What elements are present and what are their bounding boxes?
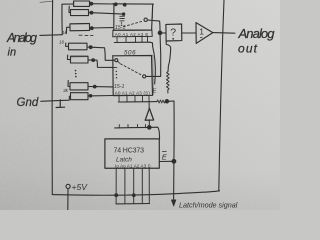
wire U1 address bus bbox=[114, 41, 149, 43]
node summing junction bbox=[158, 31, 162, 35]
latch U3 bottom pins bbox=[116, 168, 149, 204]
resistor R3 bbox=[70, 23, 90, 30]
svg-text:E: E bbox=[153, 89, 157, 95]
mux U2 input contact bbox=[115, 59, 118, 62]
wire input riser bbox=[62, 4, 74, 35]
svg-text:1: 1 bbox=[199, 27, 204, 37]
op-amp buffer A1 bbox=[196, 23, 213, 44]
ground symbol bbox=[59, 100, 61, 107]
wire Analog in bbox=[40, 34, 63, 37]
wire latch E pin bbox=[159, 160, 174, 162]
frame border right bbox=[219, 0, 224, 191]
svg-text:1k: 1k bbox=[62, 30, 68, 35]
latch bus teeth bbox=[119, 124, 145, 127]
node R7 tap bbox=[89, 95, 92, 98]
resistor R2 bbox=[71, 10, 89, 16]
mux U1 wiper dashed bbox=[124, 21, 144, 27]
node E junction bbox=[172, 159, 176, 163]
resistor R7 bbox=[71, 93, 89, 100]
svg-text:74 HC373: 74 HC373 bbox=[114, 148, 145, 155]
wire U2 address bus bbox=[118, 101, 157, 103]
node pin crossing 2 bbox=[132, 194, 135, 197]
node R3 tap bbox=[90, 27, 93, 30]
svg-text:Io Ao A1 A2 A3 S: Io Ao A1 A2 A3 S bbox=[115, 163, 151, 168]
text Analog in bbox=[6, 31, 37, 59]
wire R3 to mux1 bbox=[90, 27, 113, 29]
ellipsis omitted resistors bbox=[79, 34, 93, 36]
op-amp/mux U1 box bbox=[113, 4, 154, 31]
svg-text:in: in bbox=[8, 47, 17, 59]
comparator box ? bbox=[166, 24, 182, 41]
wire junction to ? box bbox=[162, 32, 166, 34]
node R2 tap bbox=[90, 11, 93, 14]
text Analog out bbox=[238, 26, 276, 56]
mux U1 input contacts bbox=[120, 16, 125, 21]
resistor R5 bbox=[71, 56, 89, 63]
mux U1 label strip bbox=[113, 30, 153, 37]
wire R4 to mux2 input bbox=[87, 47, 114, 60]
wire U2 output up to junction bbox=[146, 33, 161, 77]
mux U2 box bbox=[113, 56, 153, 96]
wire R6 left hook bbox=[68, 81, 70, 87]
wire latch top bus bbox=[115, 127, 160, 139]
wire latch/mode line bbox=[173, 101, 176, 200]
wire pin bottom bar bbox=[116, 203, 149, 205]
frame border bottom bbox=[52, 191, 219, 196]
resistor R4 bbox=[69, 43, 88, 50]
svg-text:+5V: +5V bbox=[72, 182, 89, 192]
mux U2 input tick bbox=[113, 66, 117, 68]
svg-text:out: out bbox=[238, 42, 258, 56]
mux U2 pin stubs bbox=[119, 96, 149, 102]
resistor R6 bbox=[70, 83, 88, 90]
node U1 top tap 2 bbox=[123, 3, 126, 6]
wire R1 to mux bbox=[90, 3, 115, 5]
svg-text:506: 506 bbox=[124, 50, 136, 57]
wire +5V down bbox=[67, 189, 69, 210]
wire U1 output bbox=[147, 20, 160, 33]
svg-text:15-1: 15-1 bbox=[115, 25, 125, 31]
node bus arrow junction bbox=[148, 126, 152, 130]
wire R6 to mux2 bbox=[88, 86, 113, 88]
resistor R1 bbox=[74, 1, 90, 6]
svg-text:Analog: Analog bbox=[6, 31, 37, 45]
svg-text:A0 A1 A2 A3 E: A0 A1 A2 A3 E bbox=[115, 32, 149, 37]
svg-text:?: ? bbox=[170, 27, 176, 39]
svg-text:A0 A1 A2 A3 (S): A0 A1 A2 A3 (S) bbox=[115, 90, 151, 95]
arrow latch/mode bbox=[171, 200, 176, 206]
wire R5 to mux2 bbox=[88, 60, 113, 68]
wire from ? box down bbox=[166, 41, 171, 72]
resistor pullup horizontal squiggle bbox=[157, 100, 167, 103]
frame border left bbox=[51, 0, 53, 195]
svg-text:15-1: 15-1 bbox=[114, 84, 124, 90]
wire R7 to mux2 bbox=[88, 95, 113, 97]
wire bus down right side bbox=[149, 42, 155, 84]
overdraw sketch lines bbox=[70, 1, 159, 168]
latch U3 box bbox=[105, 139, 159, 168]
mux U1 wiper contact bbox=[144, 18, 147, 21]
node R4 tap bbox=[89, 46, 92, 49]
node bus/pullup bbox=[165, 100, 168, 103]
wire R2 left hook bbox=[69, 6, 71, 12]
arrow bus up bbox=[148, 102, 150, 127]
vertical tick near U1 corner bbox=[151, 5, 153, 19]
frame top-left hook bbox=[40, 1, 53, 2]
svg-text:16: 16 bbox=[59, 40, 65, 45]
ellipsis resistor chain bbox=[75, 70, 77, 78]
wire R2 to mux contact bbox=[89, 13, 124, 14]
node contact dot bbox=[122, 13, 124, 15]
svg-text:Latch/mode signal: Latch/mode signal bbox=[179, 201, 238, 210]
resistor pullup vertical squiggle bbox=[167, 72, 170, 94]
node R6 tap bbox=[93, 85, 96, 88]
wire R5 left hook bbox=[67, 55, 70, 60]
mux U1 pin stubs bbox=[117, 37, 148, 43]
wire Gnd bbox=[41, 96, 71, 101]
terminal +5V bbox=[66, 184, 70, 188]
wire R3 left hook bbox=[66, 27, 70, 33]
svg-text:Analog: Analog bbox=[238, 26, 276, 41]
wire R4 left hook bbox=[66, 43, 69, 46]
node U1 top tap 1 bbox=[114, 3, 117, 6]
wire Analog out bbox=[213, 32, 235, 35]
node pin crossing 1 bbox=[115, 194, 118, 197]
svg-text:Gnd: Gnd bbox=[17, 97, 39, 109]
mux U2 wiper dashed bbox=[121, 64, 143, 76]
node R5 tap bbox=[92, 59, 95, 62]
mux U2 wiper contact bbox=[143, 75, 146, 78]
node R1 tap bbox=[90, 2, 93, 5]
wire ? box to opamp bbox=[182, 32, 196, 34]
wire node to latch line bbox=[167, 100, 174, 102]
svg-text:3k: 3k bbox=[63, 88, 69, 94]
